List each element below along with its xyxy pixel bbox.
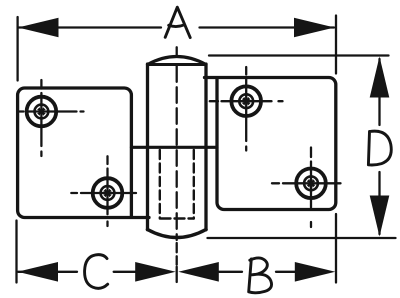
screw bottom-left center lines xyxy=(71,156,136,226)
dimension A arrow left xyxy=(18,18,59,38)
barrel center axis line xyxy=(176,66,178,240)
screw hole bottom-left recess star xyxy=(103,189,112,198)
barrel dome cap xyxy=(148,57,207,65)
screw hole top-left inner circle xyxy=(35,105,49,119)
knuckle split line xyxy=(131,146,217,149)
dimension C arrow left xyxy=(18,262,59,282)
hidden pin hole right line xyxy=(193,150,195,219)
screw hole bottom-right outer circle xyxy=(296,169,326,199)
dimension A extension line left xyxy=(16,17,18,81)
dimension B extension line right xyxy=(335,214,337,283)
hidden pin hole bottom line xyxy=(161,217,194,219)
dimension C line xyxy=(18,271,138,273)
letter C xyxy=(85,255,108,289)
barrel center axis line top dash xyxy=(176,47,178,56)
dimension A extension line right xyxy=(335,16,337,74)
barrel bottom cap arc xyxy=(148,230,207,238)
barrel top rim xyxy=(148,63,207,66)
letter D xyxy=(368,131,391,165)
left leaf plate outline xyxy=(18,88,149,218)
screw hole bottom-right inner circle xyxy=(304,176,318,190)
dimension C arrow right xyxy=(135,262,176,282)
barrel left side xyxy=(146,64,149,230)
screw hole top-right recess star xyxy=(242,97,251,106)
dimension C extension line left xyxy=(15,221,17,283)
screw bottom-right center lines xyxy=(272,148,341,228)
screw hole top-left outer circle xyxy=(27,97,57,127)
dimension D line xyxy=(378,59,380,234)
right leaf plate outline xyxy=(205,78,336,210)
screw hole top-right inner circle xyxy=(239,94,253,108)
barrel center axis line lower dashes xyxy=(176,243,178,282)
screw hole bottom-left inner circle xyxy=(101,186,115,200)
screw hole bottom-left outer circle xyxy=(93,178,123,208)
dimension D extension line bottom xyxy=(208,237,396,239)
screw top-right center lines xyxy=(210,67,283,151)
dimension D arrow down xyxy=(370,196,390,237)
screw top-left center lines xyxy=(20,80,84,156)
dimension B line xyxy=(219,271,296,273)
dimension B arrow right xyxy=(295,262,336,282)
hidden pin hole left line xyxy=(159,150,161,219)
letter A xyxy=(165,7,190,37)
letter B xyxy=(249,258,272,293)
barrel right side xyxy=(204,64,207,230)
dimension B arrow left xyxy=(178,262,219,282)
dimension D extension line top xyxy=(209,54,389,56)
screw hole top-right outer circle xyxy=(231,86,261,116)
screw hole bottom-right recess star xyxy=(307,179,316,188)
screw hole top-left recess star xyxy=(37,107,46,116)
dimension A arrow right xyxy=(294,18,335,38)
dimension A line xyxy=(19,26,335,28)
dimension D arrow up xyxy=(370,57,390,98)
